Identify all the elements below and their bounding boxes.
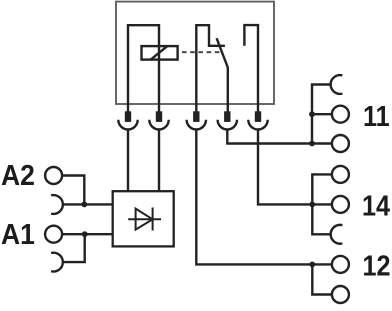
svg-text:14: 14 bbox=[362, 190, 390, 222]
svg-text:11: 11 bbox=[363, 100, 390, 132]
svg-text:A2: A2 bbox=[1, 159, 35, 191]
svg-text:A1: A1 bbox=[1, 218, 35, 250]
svg-text:12: 12 bbox=[363, 250, 391, 282]
